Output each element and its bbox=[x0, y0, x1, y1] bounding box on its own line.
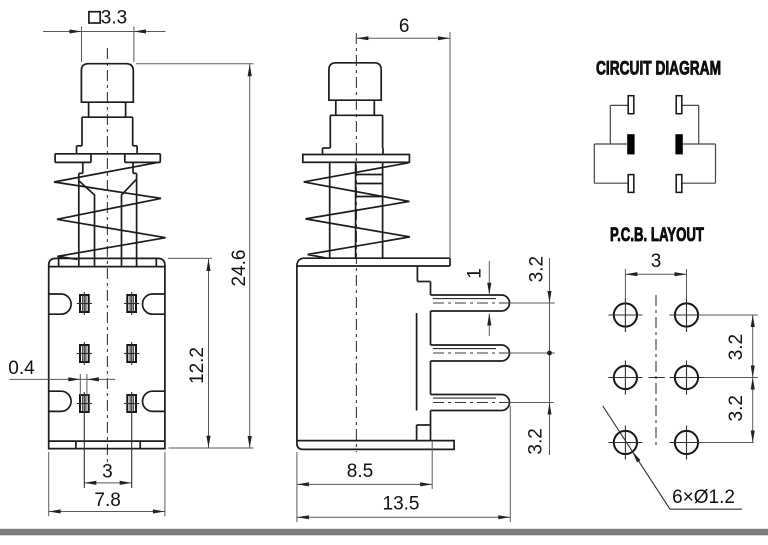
pcb: hole 3 bbox=[614, 366, 637, 389]
svg-text:3.3: 3.3 bbox=[101, 7, 127, 28]
front view: body top lip bbox=[49, 266, 165, 268]
front view: shaft block bbox=[81, 117, 83, 146]
front view: stem outer edges bbox=[78, 173, 80, 266]
circuit: pole 2 terminal top bbox=[676, 96, 682, 114]
front view: terminal 6 bbox=[127, 395, 136, 412]
side view: pin 2 bbox=[431, 345, 510, 361]
pcb: hole 1 bbox=[614, 303, 637, 326]
circuit: pole 2 terminal bottom bbox=[676, 175, 682, 193]
front view: switch body bbox=[49, 258, 165, 448]
dim 3.2 pin pitch upper bbox=[510, 302, 555, 304]
front view: body side slot top-right bbox=[143, 294, 165, 314]
svg-text:6: 6 bbox=[399, 16, 410, 37]
pcb: hole 4 bbox=[675, 366, 698, 389]
front view: flange bars bbox=[55, 153, 160, 155]
front view: push button cap bbox=[81, 64, 133, 102]
svg-text:3: 3 bbox=[102, 461, 113, 482]
dim 13.5 bbox=[509, 406, 511, 522]
svg-text:3: 3 bbox=[651, 251, 662, 272]
circuit: pole 1 terminal bottom bbox=[628, 175, 634, 193]
front view: shaft step bbox=[77, 145, 83, 147]
front view: body side slot bottom-left bbox=[49, 391, 71, 411]
dim 3.3 square (cap width) bbox=[81, 27, 83, 63]
svg-text:6×Ø1.2: 6×Ø1.2 bbox=[672, 487, 735, 508]
svg-text:12.2: 12.2 bbox=[187, 347, 208, 384]
circuit: pole 1 wires bbox=[610, 104, 627, 106]
side view: body top lip bbox=[297, 265, 450, 267]
bottom gray bar bbox=[0, 529, 768, 536]
front view: stem funnel guides bbox=[79, 181, 94, 267]
front view: terminal 5 bbox=[80, 395, 89, 412]
svg-text:13.5: 13.5 bbox=[383, 494, 420, 515]
side view: right profile steps bbox=[416, 266, 418, 282]
svg-text:3.2: 3.2 bbox=[726, 334, 747, 360]
circuit: pole 1 terminal top bbox=[628, 96, 634, 114]
side view: shaft step bbox=[323, 147, 331, 149]
dim 1 (pin thickness) bbox=[488, 261, 490, 295]
circuit: pole 2 wires bbox=[682, 104, 698, 106]
side view: stem rungs bbox=[356, 174, 383, 176]
svg-text:8.5: 8.5 bbox=[347, 461, 373, 482]
side view: body outline bbox=[297, 258, 454, 449]
front view: body side slot top-left bbox=[49, 294, 71, 314]
pcb: hole 6 bbox=[675, 431, 698, 454]
dim 24.6 (overall height) bbox=[136, 63, 254, 65]
side view: stem inner rail bbox=[355, 162, 357, 258]
svg-text:3.2: 3.2 bbox=[526, 256, 547, 282]
side view: shaft block bbox=[329, 115, 331, 148]
svg-text:0.4: 0.4 bbox=[8, 358, 35, 379]
circuit: pole 2 moving contact (filled) bbox=[675, 134, 682, 154]
pcb dim 3.2 row pitch upper bbox=[698, 314, 758, 316]
side view: stem edges bbox=[329, 162, 331, 258]
side view: button neck bbox=[335, 100, 337, 115]
svg-text:3.2: 3.2 bbox=[726, 395, 747, 421]
dim 0.4 (terminal slot) bbox=[79, 374, 81, 396]
front view: terminal 4 bbox=[127, 345, 136, 362]
dim 3.2 pin pitch lower bbox=[549, 403, 551, 456]
pcb: hole 2 bbox=[675, 303, 698, 326]
dim 7.8 (body width) bbox=[48, 452, 50, 516]
svg-text:24.6: 24.6 bbox=[229, 250, 250, 287]
dim 3 (terminal pitch) bbox=[84, 482, 131, 484]
side view: center line bbox=[355, 33, 357, 452]
svg-text:1: 1 bbox=[465, 268, 486, 279]
side view: pin 3 bbox=[431, 395, 510, 411]
svg-text:CIRCUIT DIAGRAM: CIRCUIT DIAGRAM bbox=[596, 58, 721, 80]
front view: terminal 2 bbox=[127, 295, 136, 312]
side view: push button cap bbox=[329, 63, 381, 100]
side view: flange plate bbox=[303, 155, 410, 163]
pcb leader 6x1.2 bbox=[603, 406, 670, 509]
svg-text:P.C.B. LAYOUT: P.C.B. LAYOUT bbox=[610, 224, 704, 246]
dim 6 (center to body edge) bbox=[355, 33, 357, 44]
front view: button neck bbox=[88, 102, 90, 117]
front view: center line bbox=[106, 48, 108, 462]
pcb dim 3.2 row pitch lower bbox=[752, 378, 754, 443]
side view: spring bbox=[304, 163, 410, 258]
dim 12.2 (body height) bbox=[168, 257, 212, 259]
front view: terminal 3 bbox=[80, 345, 89, 362]
svg-text:7.8: 7.8 bbox=[94, 490, 120, 511]
pcb: hole 5 bbox=[614, 431, 637, 454]
front view: body bottom lip bbox=[49, 440, 165, 442]
side view: pin 1 bbox=[431, 295, 510, 311]
dim 8.5 bbox=[296, 452, 298, 522]
pcb: center line bbox=[655, 295, 657, 447]
front view: body side slot bottom-right bbox=[143, 391, 165, 411]
pcb dim 3 (column pitch) bbox=[624, 269, 626, 299]
front view: terminal 1 bbox=[80, 295, 89, 312]
front view: neck notches below flange bbox=[82, 162, 84, 173]
circuit: pole 1 moving contact (filled) bbox=[627, 134, 634, 154]
svg-text:3.2: 3.2 bbox=[526, 428, 547, 454]
front view: spring bbox=[54, 162, 166, 260]
